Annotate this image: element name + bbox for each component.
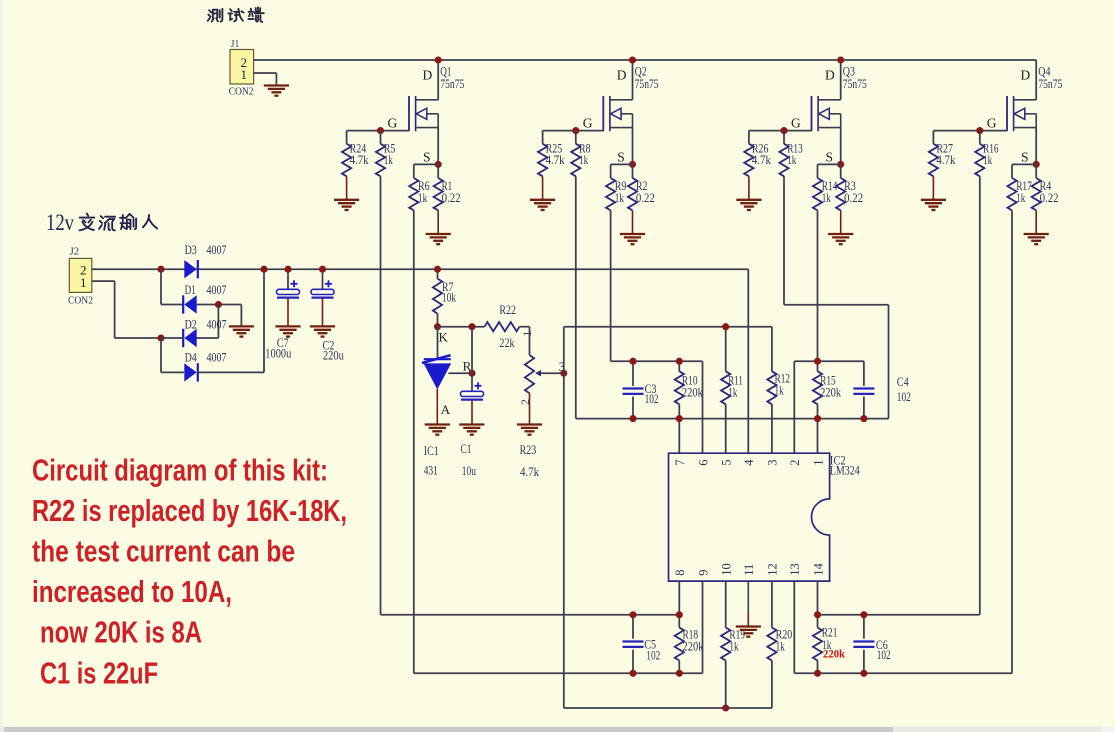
wire R16 column	[979, 176, 981, 615]
node R21 bot	[814, 670, 821, 677]
wire Q4 gate lead	[933, 130, 1007, 132]
svg-text:10k: 10k	[442, 290, 457, 305]
svg-text:102: 102	[645, 391, 659, 406]
capacitor C5	[623, 615, 661, 674]
resistor R5	[376, 131, 395, 177]
resistor R1	[434, 164, 461, 234]
node K	[434, 323, 441, 330]
node R10 top	[676, 358, 683, 365]
wire row F right	[794, 581, 1012, 673]
node R10 bot	[676, 415, 683, 422]
svg-text:431: 431	[424, 463, 438, 478]
svg-text:G: G	[388, 116, 398, 131]
svg-text:4007: 4007	[207, 350, 227, 365]
svg-text:1k: 1k	[615, 190, 625, 205]
svg-text:D: D	[825, 68, 835, 83]
label G Q4	[987, 116, 997, 131]
diode D2	[182, 317, 227, 348]
node Q2 gate	[572, 127, 579, 134]
svg-text:1: 1	[80, 275, 87, 290]
diode D3	[184, 242, 227, 278]
wire pot bottom	[529, 393, 531, 424]
label D Q4	[1021, 68, 1031, 83]
wire R9 column	[610, 210, 612, 361]
wire R ref	[448, 372, 472, 374]
ground C7	[275, 326, 300, 336]
title text 12v交流输入	[46, 210, 157, 235]
node C6 top	[860, 611, 867, 618]
resistor R15	[813, 361, 842, 453]
transistor Q3	[811, 64, 867, 132]
node R7 top	[434, 266, 441, 273]
resistor R3	[836, 164, 863, 234]
svg-text:C1 is 22uF: C1 is 22uF	[40, 656, 158, 691]
label S Q1	[423, 150, 431, 165]
resistor R9	[606, 164, 633, 210]
wire wiper column	[563, 327, 565, 708]
transistor Q2	[602, 64, 658, 132]
wire D1 anode	[197, 305, 242, 327]
node AC2	[157, 334, 164, 341]
svg-text:1000u: 1000u	[265, 345, 291, 360]
node AC1	[157, 266, 164, 273]
ground C1	[459, 425, 484, 435]
ground R27	[921, 200, 946, 210]
svg-text:A: A	[441, 402, 451, 417]
node R15 top	[814, 358, 821, 365]
svg-text:75n75: 75n75	[1038, 76, 1062, 91]
ground R23	[517, 425, 542, 435]
diode D1	[182, 282, 227, 314]
resistor R8	[571, 131, 590, 177]
wire Q3 source	[840, 128, 842, 165]
svg-text:220k: 220k	[683, 638, 704, 653]
svg-text:1k: 1k	[579, 152, 589, 167]
svg-text:13: 13	[788, 563, 802, 576]
resistor R24	[342, 131, 369, 200]
svg-text:R22 is replaced by 16K-18K,: R22 is replaced by 16K-18K,	[32, 493, 347, 528]
resistor R22	[485, 302, 530, 350]
node C3 top	[629, 358, 636, 365]
capacitor C3	[623, 361, 659, 418]
resistor R11	[721, 327, 743, 454]
svg-text:4: 4	[742, 459, 756, 466]
svg-text:1k: 1k	[729, 638, 739, 653]
ground C2	[310, 326, 335, 336]
annotation red text	[32, 452, 347, 690]
wire Q2 source	[632, 128, 634, 165]
svg-text:S: S	[1021, 150, 1029, 165]
pin 3 IC2	[766, 460, 780, 466]
wire row E left	[381, 614, 680, 616]
wire line B	[564, 326, 772, 328]
svg-text:1k: 1k	[1016, 190, 1026, 205]
resistor R2	[628, 164, 655, 234]
node R21 top	[814, 611, 821, 618]
wire J1 pin1	[254, 73, 277, 85]
svg-text:D2: D2	[185, 317, 197, 332]
label D Q3	[825, 68, 835, 83]
pin 14 IC2	[811, 563, 825, 576]
svg-text:10u: 10u	[462, 463, 477, 478]
ground R25	[530, 200, 555, 210]
svg-text:4.7k: 4.7k	[350, 152, 369, 167]
ground R26	[736, 200, 761, 210]
svg-text:Circuit diagram of this kit:: Circuit diagram of this kit:	[32, 452, 328, 487]
svg-text:D: D	[617, 68, 627, 83]
wire R13 column	[784, 176, 889, 418]
transistor Q4	[1006, 64, 1062, 132]
node C5 top	[629, 611, 636, 618]
svg-text:8: 8	[673, 570, 687, 576]
wire D2 lead	[161, 337, 184, 339]
svg-text:1k: 1k	[776, 638, 786, 653]
svg-text:G: G	[791, 116, 801, 131]
svg-text:14: 14	[811, 563, 825, 576]
svg-text:102: 102	[877, 647, 891, 662]
pin 2 IC2	[788, 460, 802, 466]
label IC1 K? R A	[441, 359, 472, 418]
svg-text:4007: 4007	[207, 242, 227, 257]
wire Q3 drain	[840, 60, 842, 100]
svg-text:C4: C4	[897, 374, 909, 389]
label pot pin3	[559, 360, 565, 374]
wire row F left	[414, 581, 703, 673]
capacitor C6	[853, 615, 890, 674]
ground J1	[264, 86, 289, 96]
wire Q1 drain	[437, 60, 439, 100]
resistor R12	[767, 327, 790, 454]
ground pin11	[736, 581, 761, 637]
wire Q4 drain	[1035, 60, 1037, 100]
svg-text:4007: 4007	[207, 282, 227, 297]
svg-text:4.7k: 4.7k	[520, 464, 539, 479]
label pot pin2	[518, 399, 532, 405]
svg-text:0.22: 0.22	[844, 190, 863, 205]
wire R14 column	[817, 210, 819, 361]
resistor R18	[675, 615, 704, 674]
node Q3 drain	[837, 56, 844, 63]
svg-text:75n75: 75n75	[635, 76, 659, 91]
svg-text:4.7k: 4.7k	[752, 152, 771, 167]
svg-text:1k: 1k	[418, 190, 428, 205]
svg-text:now 20K is 8A: now 20K is 8A	[40, 615, 202, 650]
svg-text:CON2: CON2	[68, 296, 93, 307]
pin 9 IC2	[696, 570, 710, 576]
node wiper	[560, 370, 567, 377]
wire D4 cathode	[198, 269, 265, 372]
wire pin14	[817, 581, 819, 615]
node row G	[722, 704, 729, 711]
label G Q2	[583, 116, 593, 131]
svg-text:12: 12	[766, 563, 780, 576]
svg-text:CON2: CON2	[229, 87, 254, 98]
node C3 bot	[629, 415, 636, 422]
node Vplus	[260, 266, 267, 273]
resistor R7	[433, 269, 457, 327]
resistor R10	[675, 361, 704, 453]
svg-text:0.22: 0.22	[442, 190, 461, 205]
svg-text:10: 10	[720, 563, 734, 576]
capacitor C7	[265, 269, 299, 360]
label S Q2	[617, 150, 625, 165]
node C6 bot	[860, 670, 867, 677]
resistor R16	[975, 131, 999, 177]
connector J1	[229, 39, 254, 98]
wire row G	[564, 661, 772, 709]
svg-text:9: 9	[696, 570, 710, 576]
label pot pin1	[520, 331, 534, 337]
resistor R27	[929, 131, 956, 200]
ground R2	[620, 234, 645, 244]
svg-text:102: 102	[897, 389, 911, 404]
svg-text:102: 102	[646, 648, 660, 663]
svg-text:D4: D4	[185, 350, 198, 365]
label R21 220k red	[823, 649, 846, 661]
resistor R20	[767, 581, 792, 660]
pin 6 IC2	[696, 460, 710, 466]
svg-text:G: G	[987, 116, 997, 131]
node C4 bot	[860, 415, 867, 422]
pin 10 IC2	[720, 563, 734, 576]
capacitor C2	[311, 269, 344, 362]
wire D1 feed	[161, 269, 184, 304]
pin 4 IC2	[742, 459, 756, 466]
ground R24	[334, 200, 359, 210]
svg-text:75n75: 75n75	[843, 76, 867, 91]
svg-text:D1: D1	[185, 282, 196, 297]
svg-text:12v: 12v	[46, 210, 74, 235]
label S Q3	[826, 150, 834, 165]
capacitor C1	[461, 327, 484, 479]
node C7	[284, 266, 291, 273]
svg-text:220u: 220u	[323, 347, 344, 362]
wire D4 feed	[161, 338, 184, 372]
node Q2 drain	[629, 56, 636, 63]
node Q3 source	[837, 161, 844, 168]
resistor R17	[1007, 164, 1036, 210]
svg-text:the test current can be: the test current can be	[32, 534, 295, 569]
svg-text:J1: J1	[231, 39, 240, 50]
svg-text:7: 7	[673, 460, 687, 466]
label G Q3	[791, 116, 801, 131]
node Q1 gate	[377, 127, 384, 134]
svg-text:22k: 22k	[499, 335, 515, 350]
pin 11 IC2	[742, 564, 756, 576]
node Q1 source	[435, 161, 442, 168]
svg-text:K: K	[439, 330, 449, 345]
wire Q2 gate lead	[543, 130, 604, 132]
wire R15 top segment	[794, 361, 864, 453]
resistor R14	[813, 164, 841, 210]
wire Q1 source	[437, 128, 439, 165]
transistor Q1	[408, 64, 464, 132]
svg-text:2: 2	[788, 460, 802, 466]
node Q4 gate	[976, 127, 983, 134]
node R18 top	[676, 611, 683, 618]
node Q2 source	[629, 161, 636, 168]
svg-text:D: D	[423, 68, 433, 83]
svg-text:1: 1	[520, 331, 534, 337]
resistor R19	[721, 581, 745, 708]
svg-text:1k: 1k	[775, 383, 785, 398]
node R ref	[468, 370, 475, 377]
capacitor C4	[853, 361, 910, 418]
wire row C	[611, 361, 703, 453]
svg-text:4.7k: 4.7k	[546, 152, 565, 167]
pin 5 IC2	[720, 460, 734, 466]
wire D2 anode	[197, 305, 219, 339]
svg-text:5: 5	[720, 460, 734, 466]
svg-text:R23: R23	[520, 442, 537, 457]
pin 1 IC2	[811, 460, 825, 466]
node Q4 drain	[0, 0, 1, 1]
potentiometer R23	[520, 355, 564, 479]
wire row E right	[818, 614, 980, 616]
node R11 top	[722, 323, 729, 330]
ground R1	[426, 234, 451, 244]
svg-text:1k: 1k	[822, 190, 832, 205]
ground R3	[828, 234, 853, 244]
wire Q3 gate lead	[749, 130, 812, 132]
label S Q4	[1021, 150, 1029, 165]
svg-text:1k: 1k	[728, 385, 738, 400]
wire R17 column	[1011, 210, 1013, 673]
wire row D	[576, 418, 889, 420]
label G Q1	[388, 116, 398, 131]
svg-text:S: S	[423, 150, 431, 165]
wire R22 to pot	[529, 327, 531, 355]
op-amp U-IC2 LM324 body	[669, 453, 861, 581]
svg-text:220k: 220k	[682, 385, 703, 400]
svg-text:G: G	[583, 116, 593, 131]
wire Q1 gate lead	[347, 130, 409, 132]
ground R4	[1024, 234, 1049, 244]
svg-text:C1: C1	[461, 441, 472, 456]
node C1 top	[468, 323, 475, 330]
svg-text:1k: 1k	[384, 152, 394, 167]
resistor R6	[409, 164, 438, 210]
svg-text:1k: 1k	[983, 152, 993, 167]
wire Q4 source	[1035, 128, 1037, 165]
svg-text:IC1: IC1	[424, 443, 439, 458]
resistor R21	[813, 615, 837, 674]
wire J2 pin1	[92, 281, 161, 338]
ground IC1	[425, 425, 450, 435]
svg-text:D: D	[1021, 68, 1031, 83]
label K	[439, 330, 449, 345]
svg-text:4007: 4007	[207, 317, 227, 332]
svg-text:S: S	[617, 150, 625, 165]
svg-text:LM324: LM324	[830, 463, 860, 478]
node C5 bot	[629, 670, 636, 677]
resistor R13	[779, 131, 802, 177]
wire R8 column	[575, 176, 577, 418]
node R15 bot	[814, 415, 821, 422]
pin 13 IC2	[788, 563, 802, 576]
pin 7 IC2	[673, 460, 687, 466]
svg-text:increased to 10A,: increased to 10A,	[32, 574, 232, 609]
wire top rail	[254, 59, 1037, 61]
svg-text:1: 1	[241, 67, 248, 82]
op-amp IC1 431	[422, 327, 451, 478]
node Q4 source	[1033, 161, 1040, 168]
svg-text:1k: 1k	[787, 152, 797, 167]
pin 8 IC2	[673, 570, 687, 576]
wire pin8	[678, 581, 680, 615]
wire Q2 drain	[632, 60, 634, 100]
svg-text:0.22: 0.22	[1040, 190, 1059, 205]
svg-text:S: S	[826, 150, 834, 165]
label D Q2	[617, 68, 627, 83]
resistor R26	[744, 131, 771, 200]
connector J2	[68, 247, 93, 307]
diode D4	[184, 350, 227, 382]
svg-text:4.7k: 4.7k	[936, 152, 955, 167]
svg-text:R22: R22	[499, 302, 516, 317]
wire R6 column	[413, 210, 415, 673]
resistor R4	[1032, 164, 1059, 234]
pin 12 IC2	[766, 563, 780, 576]
wire K to C1	[438, 326, 485, 328]
label D Q1	[423, 68, 433, 83]
wire R5 column	[380, 176, 382, 615]
svg-text:D3: D3	[185, 242, 197, 257]
svg-text:6: 6	[696, 460, 710, 466]
svg-text:220k: 220k	[823, 649, 846, 661]
title text 测试端	[208, 7, 264, 22]
node R18 bot	[676, 670, 683, 677]
svg-text:220k: 220k	[820, 385, 841, 400]
node Q1 drain	[435, 56, 442, 63]
svg-text:3: 3	[766, 460, 780, 466]
svg-text:1: 1	[811, 460, 825, 466]
svg-text:J2: J2	[70, 247, 80, 258]
node C2	[319, 266, 326, 273]
node Q3 gate	[780, 127, 787, 134]
svg-text:0.22: 0.22	[636, 190, 655, 205]
wire AC main line	[92, 268, 749, 270]
node D1-D2	[215, 301, 222, 308]
wire line A to pin4	[747, 269, 749, 453]
svg-text:11: 11	[742, 564, 756, 576]
ground bridge	[229, 326, 254, 336]
resistor R25	[538, 131, 565, 200]
svg-text:75n75: 75n75	[440, 76, 464, 91]
